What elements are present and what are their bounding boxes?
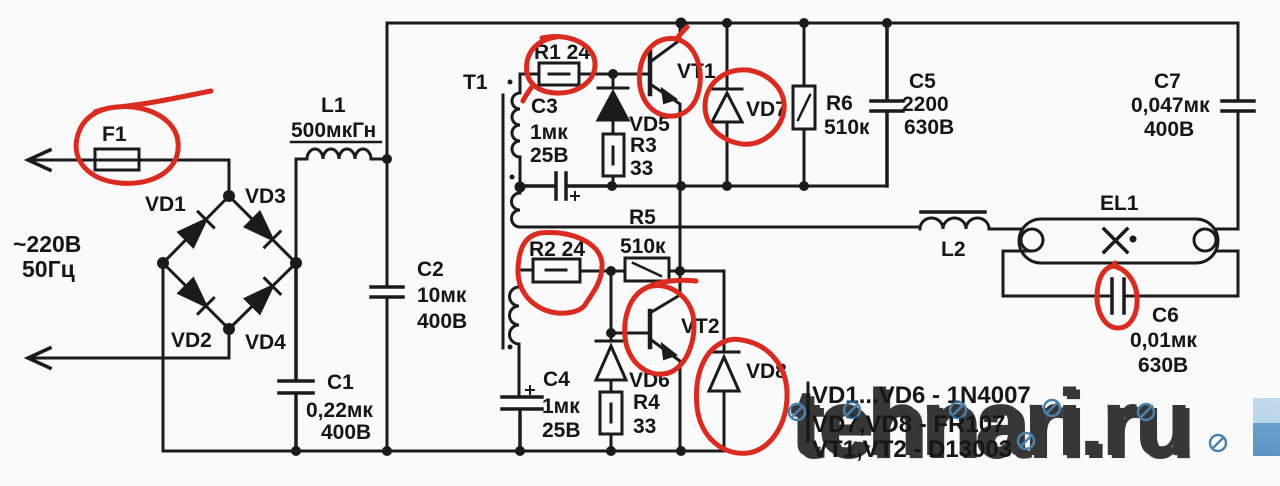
lamp X mark	[1104, 229, 1127, 252]
wire bridge diamond edges	[163, 196, 296, 329]
transformer T1 core	[502, 95, 505, 348]
wire bottom rail	[163, 450, 724, 453]
capacitor C6	[1112, 279, 1124, 313]
svg-text:33: 33	[630, 157, 653, 180]
svg-text:C3: C3	[531, 95, 558, 118]
svg-text:10мк: 10мк	[417, 284, 467, 307]
wire right rail with C7	[1216, 23, 1238, 229]
svg-text:0,22мк: 0,22мк	[306, 399, 373, 422]
resistor R2	[533, 259, 580, 282]
C4 plus	[526, 386, 534, 394]
red circle VD8	[696, 339, 787, 453]
svg-text:C2: C2	[417, 258, 444, 281]
svg-text:1мк: 1мк	[530, 121, 568, 144]
svg-text:VD4: VD4	[245, 331, 286, 354]
red circle R2	[518, 233, 602, 314]
svg-text:400В: 400В	[1144, 118, 1194, 141]
C3 plus dot area / lamp dot	[1130, 236, 1137, 243]
svg-text:R4: R4	[633, 391, 660, 414]
T1 polarity dots	[508, 80, 513, 85]
wire arrow top barbs	[28, 150, 50, 170]
svg-text:25В: 25В	[530, 144, 569, 167]
diode VD3	[245, 212, 280, 247]
C3 plus	[571, 192, 579, 200]
svg-text:0,01мк: 0,01мк	[1130, 329, 1197, 352]
resistor R5	[581, 270, 625, 273]
svg-text:R2 24: R2 24	[529, 238, 585, 261]
red circle C6	[1097, 263, 1137, 328]
svg-text:25В: 25В	[542, 419, 581, 442]
diode VD2	[178, 278, 213, 313]
svg-text:400В: 400В	[417, 310, 467, 333]
svg-text:C1: C1	[327, 371, 354, 394]
svg-text:L1: L1	[321, 94, 346, 117]
fuse F1	[95, 149, 139, 170]
svg-text:0,047мк: 0,047мк	[1131, 94, 1210, 117]
svg-text:~220В: ~220В	[13, 231, 81, 257]
red circle VT1	[639, 27, 700, 116]
svg-text:VT2: VT2	[681, 315, 720, 338]
svg-text:EL1: EL1	[1100, 192, 1139, 215]
svg-text:F1: F1	[102, 123, 127, 146]
transformer T1 winding W3	[519, 270, 533, 287]
svg-text:VD1: VD1	[145, 193, 186, 216]
svg-text:tehnari.ru: tehnari.ru	[790, 370, 1188, 476]
svg-text:C6: C6	[1152, 304, 1179, 327]
wire W2 to L2	[520, 226, 920, 229]
diode VD6	[596, 333, 626, 392]
resistor R1	[520, 73, 539, 76]
wire top rail	[387, 22, 1238, 25]
svg-text:2200: 2200	[902, 93, 949, 116]
capacitor C4	[502, 397, 542, 451]
capacitor C7	[1222, 101, 1254, 111]
svg-text:VD3: VD3	[245, 185, 286, 208]
red circle R1	[523, 37, 595, 101]
wire DC minus left vertical	[162, 263, 165, 451]
wire lamp lower loop	[1003, 251, 1238, 296]
svg-text:C7: C7	[1154, 70, 1181, 93]
diode VD4	[245, 278, 280, 313]
svg-text:VD2: VD2	[171, 329, 212, 352]
red circle VD7	[705, 70, 784, 144]
wire VT1 emitter to VT2 collector	[679, 186, 682, 295]
svg-text:500мкГн: 500мкГн	[291, 119, 376, 142]
red annotation circles	[76, 27, 1137, 453]
watermark tehnari.ru	[789, 370, 1280, 479]
lamp EL1 body	[1019, 219, 1218, 263]
svg-text:R6: R6	[826, 92, 853, 115]
capacitor C1	[279, 263, 313, 451]
wire AC top line	[28, 159, 229, 162]
diode VD7	[712, 23, 742, 186]
resistor R4	[600, 392, 622, 434]
resistor R3	[603, 134, 624, 176]
diode VD8	[709, 271, 739, 451]
svg-text:R5: R5	[629, 206, 656, 229]
info block left bar	[807, 383, 810, 441]
diode VD1	[178, 212, 213, 247]
wire left HV rail with C2	[386, 23, 389, 451]
label L1 underline	[291, 141, 381, 144]
lamp electrode right	[1194, 229, 1216, 251]
transformer T1 winding W1	[519, 74, 522, 93]
resistor R6	[803, 23, 806, 86]
inductor L1	[296, 159, 307, 263]
svg-text:630В: 630В	[904, 116, 954, 139]
svg-text:L2: L2	[941, 238, 966, 261]
diode VD5	[598, 74, 628, 134]
svg-text:50Гц: 50Гц	[22, 256, 75, 282]
wire mid rail	[612, 185, 887, 188]
capacitor C2	[371, 287, 403, 297]
lamp electrode left	[1021, 229, 1043, 251]
svg-text:C5: C5	[909, 70, 936, 93]
svg-text:T1: T1	[463, 71, 488, 94]
capacitor C5	[871, 23, 903, 186]
wire AC bottom line	[28, 329, 229, 358]
svg-text:1мк: 1мк	[542, 395, 580, 418]
node dots	[676, 18, 687, 29]
svg-text:510к: 510к	[620, 235, 666, 258]
svg-text:R3: R3	[630, 134, 657, 157]
svg-text:33: 33	[633, 415, 656, 438]
red circle VT2	[625, 280, 696, 374]
transistor VT1	[648, 52, 653, 94]
svg-text:C4: C4	[543, 368, 570, 391]
transformer T1 winding W2	[519, 187, 522, 193]
wire R2/R5 node down to VT2 base	[611, 271, 648, 333]
svg-text:510к: 510к	[824, 116, 870, 139]
inductor L2	[920, 218, 989, 229]
capacitor C3	[520, 173, 612, 199]
svg-text:400В: 400В	[321, 421, 371, 444]
wire F1 down to bridge top	[228, 160, 231, 196]
transistor VT2	[648, 311, 653, 347]
wire arrow bottom barbs	[28, 348, 50, 368]
red circle F1	[76, 91, 211, 183]
